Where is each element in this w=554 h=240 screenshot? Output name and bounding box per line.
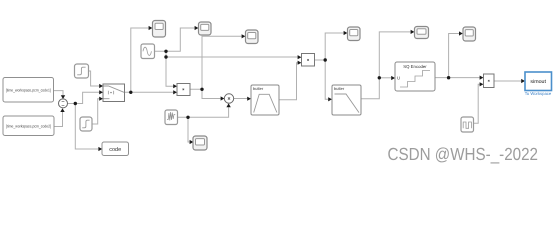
svg-text:To Workspace: To Workspace bbox=[525, 91, 552, 96]
svg-text:SQ Encoder: SQ Encoder bbox=[403, 64, 427, 69]
svg-text:simout: simout bbox=[530, 79, 546, 85]
svg-text:[time_workspace,pcm_code2]: [time_workspace,pcm_code2] bbox=[6, 123, 51, 128]
svg-text:U: U bbox=[397, 76, 400, 81]
svg-text:[time_workspace,pcm_code1]: [time_workspace,pcm_code1] bbox=[6, 88, 51, 93]
svg-text:butter: butter bbox=[253, 86, 264, 91]
svg-text:code: code bbox=[109, 147, 121, 153]
svg-text:butter: butter bbox=[334, 86, 345, 91]
svg-text:CSDN @WHS-_-2022: CSDN @WHS-_-2022 bbox=[388, 144, 539, 164]
